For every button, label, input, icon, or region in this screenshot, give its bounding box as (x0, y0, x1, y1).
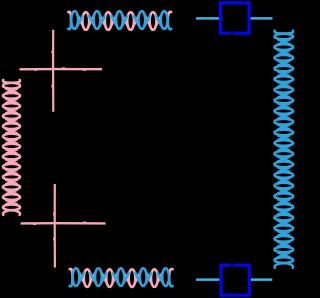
component box U1 top-right (221, 3, 250, 33)
axis marker lower-left horizontal line (21, 222, 106, 225)
wire from box U1 to right coil (251, 17, 273, 20)
wire from bottom coil to box U2 (196, 278, 219, 281)
notch on box U2 top edge (231, 263, 234, 265)
axis marker upper-left horizontal line (20, 68, 103, 71)
axis marker lower-left vertical line (54, 184, 56, 268)
notch on box U1 bottom edge (231, 33, 234, 35)
inductor L1 top coil (68, 11, 171, 30)
wire from top coil to box U1 (196, 17, 219, 20)
inductor L2 bottom coil (70, 268, 173, 287)
axis marker upper-left vertical line (52, 30, 54, 112)
tick nubs on upper-left cross (34, 51, 86, 88)
inductor L3 right coil (274, 31, 293, 268)
tick nubs on lower-left cross (33, 213, 86, 241)
inductor L4 left coil (3, 80, 20, 215)
wire from box U2 to right coil (251, 278, 272, 281)
component box U2 bottom-right (221, 265, 249, 295)
